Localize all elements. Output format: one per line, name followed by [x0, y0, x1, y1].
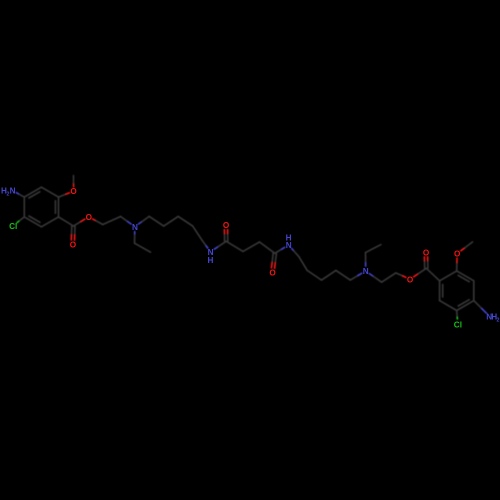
bond C(=O)-ring2	[426, 268, 439, 281]
bond ring1-NH2	[18, 194, 24, 197]
wire CH2-CH2 steep right	[299, 257, 307, 271]
C=O double bond (right amide)	[272, 253, 273, 263]
bond C-O (left ester)	[73, 221, 81, 226]
bond O-CH3 (methoxy right)	[461, 248, 465, 251]
svg-text:O: O	[269, 269, 276, 278]
bond NH-C(=O)	[214, 247, 218, 250]
bond N-CH2 (chain left)	[139, 222, 143, 224]
wire CH2-CH2	[307, 270, 321, 280]
svg-text:O: O	[223, 221, 230, 230]
wire CH2-CH2	[336, 270, 350, 280]
bond N-CH2 (ethyl right)	[365, 262, 367, 266]
bond CH2-N	[121, 217, 128, 222]
bond CH2-CH3 (ethyl right)	[366, 245, 381, 253]
svg-text:O: O	[423, 248, 430, 257]
C=O double bond (right ester)	[427, 260, 429, 268]
bond CH2-CH3 (ethyl left)	[135, 243, 151, 252]
svg-text:Cl: Cl	[454, 320, 462, 329]
benzene ring 1 (left, 4-amino-5-chloro-2-methoxyphenyl)	[41, 187, 58, 197]
bond N-CH2 (ethyl left)	[134, 232, 136, 235]
C=O double bond (left amide)	[227, 233, 229, 241]
ring 2 aromatic inner lines	[442, 284, 444, 297]
bond ring2-O (methoxy)	[456, 262, 458, 271]
bond CH2-CH2 (succinyl)	[243, 242, 260, 251]
bond CH2-O (right ester)	[396, 273, 403, 276]
bond O-CH2	[93, 219, 96, 221]
bond O-CH3 (methoxy left)	[73, 183, 75, 186]
bond ring2-NH2	[474, 301, 482, 309]
C=O double bond (left ester)	[71, 226, 73, 235]
svg-text:O: O	[70, 241, 77, 250]
svg-text:N: N	[10, 187, 16, 196]
svg-text:N: N	[132, 223, 138, 232]
bond ring1-Cl	[19, 217, 25, 222]
svg-text:Cl: Cl	[9, 222, 17, 231]
bond CH2-CH2	[382, 273, 396, 282]
svg-text:N: N	[363, 267, 369, 276]
svg-text:O: O	[454, 250, 461, 259]
svg-text:N: N	[286, 241, 292, 250]
wire CH2-CH2	[178, 216, 193, 226]
bond ring2-Cl	[456, 311, 459, 318]
bond CH2-C	[260, 242, 275, 253]
wire CH2-CH2	[164, 216, 179, 226]
bond O-C (right ester)	[414, 274, 419, 277]
bond C-CH2	[226, 241, 243, 251]
bond C(=O)-NH (right)	[275, 249, 282, 253]
wire CH2-CH2 steep	[193, 226, 202, 240]
svg-text:H: H	[286, 233, 292, 242]
svg-text:H: H	[208, 256, 214, 265]
wire CH2-CH2	[322, 270, 336, 280]
svg-text:O: O	[70, 187, 77, 196]
bond CH2-CH2	[103, 217, 121, 225]
wire CH2-CH2	[149, 216, 164, 226]
bond CH2-NH	[202, 240, 206, 246]
benzene ring 2 (right, 4-amino-5-chloro-2-methoxyphenyl)	[457, 271, 474, 281]
bond ring1-O (methoxy)	[59, 194, 67, 197]
bond N-CH2 (right ester chain)	[369, 274, 373, 277]
bond ring1-C(=O)	[59, 217, 74, 226]
bond CH2-N (right)	[350, 276, 358, 281]
bond NH-CH2 (chain right)	[292, 249, 294, 251]
svg-text:O: O	[407, 275, 414, 284]
svg-text:2: 2	[497, 318, 500, 324]
ring 1 aromatic inner lines	[54, 201, 56, 214]
svg-text:O: O	[86, 213, 93, 222]
